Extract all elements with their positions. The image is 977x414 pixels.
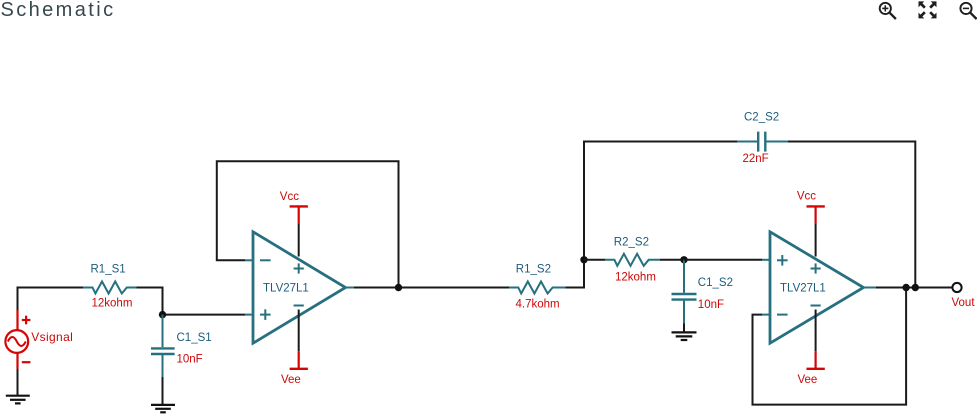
resistor R1_S1 — [83, 282, 137, 294]
wire node N3 to R2_S2 — [584, 259, 605, 261]
svg-text:10nF: 10nF — [177, 354, 203, 366]
Vcc rail U2 — [807, 206, 825, 257]
wire C2_S2 to node N6 — [788, 142, 915, 288]
svg-text:12kohm: 12kohm — [615, 271, 656, 283]
output wire U1 to R1_S2 — [346, 287, 355, 289]
junction node N5 (feedback tap) — [902, 284, 909, 291]
op-amp U2 TLV27L1 — [770, 232, 864, 343]
svg-text:Vee: Vee — [281, 374, 301, 386]
svg-text:C1_S2: C1_S2 — [698, 277, 733, 289]
svg-text:TLV27L1: TLV27L1 — [780, 283, 826, 295]
wire Vsignal bottom lead to ground — [17, 368, 19, 395]
voltage source Vsignal — [5, 310, 30, 369]
svg-text:R1_S1: R1_S1 — [91, 264, 126, 276]
capacitor C1_S1 — [151, 315, 175, 377]
ground (Vsignal) — [6, 396, 30, 404]
terminal Vout — [952, 283, 961, 292]
svg-text:Vcc: Vcc — [797, 191, 816, 203]
Vee rail U1 — [290, 310, 308, 369]
svg-text:C2_S2: C2_S2 — [744, 112, 779, 124]
output wire U2 to Vout terminal — [864, 287, 877, 289]
fit-view icon — [919, 1, 937, 18]
junction node N6 (C2_S2 tap) — [912, 284, 919, 291]
resistor R1_S2 — [509, 282, 565, 294]
junction node N4 — [680, 256, 687, 263]
wire node N3 up to C2_S2 — [584, 142, 737, 260]
ground (C1_S1) — [151, 405, 175, 412]
svg-text:4.7kohm: 4.7kohm — [516, 298, 560, 310]
wire node N1 to op-amp U1 non-inverting input — [163, 314, 246, 316]
junction node N1 — [159, 311, 166, 318]
svg-text:10nF: 10nF — [698, 299, 724, 311]
zoom-out icon — [960, 3, 976, 19]
svg-text:Schematic: Schematic — [1, 0, 116, 21]
wire Vsignal top lead to R1_S1 — [18, 288, 84, 312]
svg-text:Vee: Vee — [798, 374, 818, 386]
capacitor C1_S2 — [672, 260, 697, 324]
resistor R2_S2 — [605, 254, 660, 266]
svg-text:Vcc: Vcc — [280, 191, 299, 203]
svg-text:Vout: Vout — [952, 297, 976, 309]
wire R2_S2 to node N4 — [660, 259, 684, 261]
zoom-in icon — [880, 3, 896, 19]
ground (C1_S2) — [672, 332, 697, 340]
svg-text:C1_S1: C1_S1 — [177, 332, 212, 344]
wire R1_S2 to node N3 — [565, 260, 584, 288]
Vcc rail U1 — [290, 206, 308, 257]
capacitor C2_S2 — [737, 132, 788, 152]
wire R1_S1 to node N1 — [137, 288, 163, 315]
Vee rail U2 — [807, 310, 825, 369]
feedback wire U1 output to inverting input — [217, 161, 399, 287]
svg-text:12kohm: 12kohm — [92, 298, 133, 310]
junction node N2 (U1 output) — [395, 284, 402, 291]
svg-text:R2_S2: R2_S2 — [614, 236, 649, 248]
wire C1_S2 to ground — [683, 324, 685, 333]
svg-text:Vsignal: Vsignal — [31, 330, 73, 344]
junction node N3 — [580, 256, 587, 263]
svg-text:22nF: 22nF — [743, 153, 769, 165]
wire C1_S1 to ground — [162, 377, 164, 405]
op-amp U1 TLV27L1 — [253, 232, 346, 343]
wire node N4 to op-amp U2 non-inverting input — [684, 259, 762, 261]
svg-text:TLV27L1: TLV27L1 — [263, 283, 309, 295]
svg-text:R1_S2: R1_S2 — [516, 263, 551, 275]
feedback wire U2 output to inverting input — [753, 288, 907, 405]
